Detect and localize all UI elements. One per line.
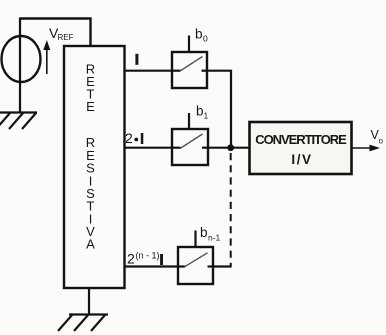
- svg-text:REF: REF: [58, 33, 74, 42]
- label 2·I: [125, 130, 143, 146]
- wire: switch bn-1 output to dashed bus: [213, 265, 232, 267]
- switch S0 (bit b0): [172, 36, 207, 89]
- svg-text:(n - 1): (n - 1): [136, 251, 160, 261]
- svg-text:b: b: [195, 27, 203, 42]
- label bn-1: [200, 225, 221, 243]
- wire: vertical through voltage source down to ground: [19, 18, 21, 113]
- converter block CONVERTITORE I/V: [250, 122, 352, 174]
- wire: top node from source to RETE RESISTIVA top: [20, 19, 91, 47]
- svg-text:o: o: [379, 136, 384, 145]
- wire: switch b0 output down to summing node: [207, 71, 231, 147]
- svg-text:CONVERTITORE: CONVERTITORE: [255, 132, 347, 147]
- wire: switch b1 output to converter input: [208, 147, 249, 149]
- switch S1 (bit b1): [172, 113, 208, 165]
- ground under RETE RESISTIVA: [58, 315, 108, 332]
- svg-text:E: E: [86, 99, 95, 114]
- switch Sn-1 (bit bn-1): [178, 231, 213, 285]
- svg-text:b: b: [196, 104, 204, 119]
- svg-text:A: A: [86, 237, 95, 252]
- label b1: [196, 104, 209, 121]
- label 2^(n-1)·I: [127, 251, 163, 267]
- svg-text:2: 2: [125, 130, 133, 146]
- wire: RETE RESISTIVA bottom to ground: [88, 288, 90, 314]
- label I (branch 0 current): [135, 54, 138, 65]
- svg-text:I/V: I/V: [291, 152, 312, 167]
- junction node (current summing node): [227, 144, 234, 151]
- wire: RETE tap to switch b0: [124, 70, 172, 72]
- dashed bus continuation wire: [230, 153, 232, 266]
- label V_o: [371, 128, 384, 145]
- ground under voltage source: [0, 113, 37, 130]
- voltage source VREF: [2, 36, 41, 82]
- svg-text:b: b: [200, 225, 208, 240]
- output arrow V_o: [352, 145, 380, 152]
- svg-text:1: 1: [204, 111, 209, 121]
- label V_REF: [49, 25, 74, 42]
- label b0: [195, 27, 208, 44]
- wire: RETE tap to switch b1: [124, 147, 172, 149]
- wire: RETE tap to switch bn-1: [124, 265, 178, 267]
- VREF polarity arrow: [43, 40, 50, 74]
- svg-text:n-1: n-1: [208, 233, 221, 243]
- resistive network block RETE RESISTIVA: [64, 46, 125, 288]
- svg-text:0: 0: [203, 34, 208, 44]
- svg-text:2: 2: [127, 251, 135, 267]
